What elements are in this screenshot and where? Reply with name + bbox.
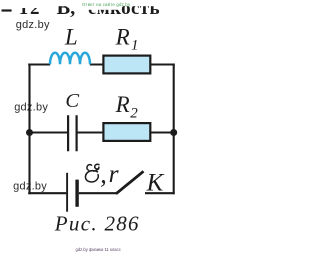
wire: middle branch segments — [30, 131, 173, 133]
svg-text:1: 1 — [131, 37, 139, 53]
cropped problem text "— 12 В, ёмкость" (top of glyphs cut off) — [2, 0, 160, 19]
svg-text:R: R — [115, 92, 130, 117]
svg-text:L: L — [64, 25, 78, 50]
svg-text:gdz.by: gdz.by — [14, 101, 48, 113]
wire: right vertical — [173, 64, 175, 195]
junction node right — [170, 129, 177, 136]
junction node left — [26, 129, 33, 136]
svg-text:2: 2 — [130, 106, 138, 122]
svg-text:Рис. 286: Рис. 286 — [54, 212, 140, 236]
svg-text:r: r — [109, 159, 119, 188]
svg-text:R: R — [115, 25, 130, 50]
resistor R2 — [103, 123, 150, 141]
svg-text:Ответ на сайте gdz.by: Ответ на сайте gdz.by — [82, 2, 131, 7]
svg-text:C: C — [65, 90, 79, 112]
svg-text:К: К — [146, 169, 165, 196]
switch K lever — [116, 171, 144, 194]
svg-text:gdz.by физика 11 класс: gdz.by физика 11 класс — [76, 247, 121, 252]
inductor L (blue coil) — [50, 53, 90, 65]
wire: top branch segments — [28, 63, 175, 65]
wire: bottom branch segments — [28, 192, 175, 194]
resistor R1 — [103, 56, 150, 74]
battery E,r : short thick plate — [75, 180, 78, 207]
wire: left vertical — [28, 64, 30, 195]
svg-text:gdz.by: gdz.by — [16, 19, 50, 31]
svg-text:,: , — [100, 160, 107, 189]
label script E (EMF) — [85, 164, 99, 182]
capacitor C (plates) — [68, 115, 77, 151]
battery E,r : long thin plate — [66, 173, 68, 212]
